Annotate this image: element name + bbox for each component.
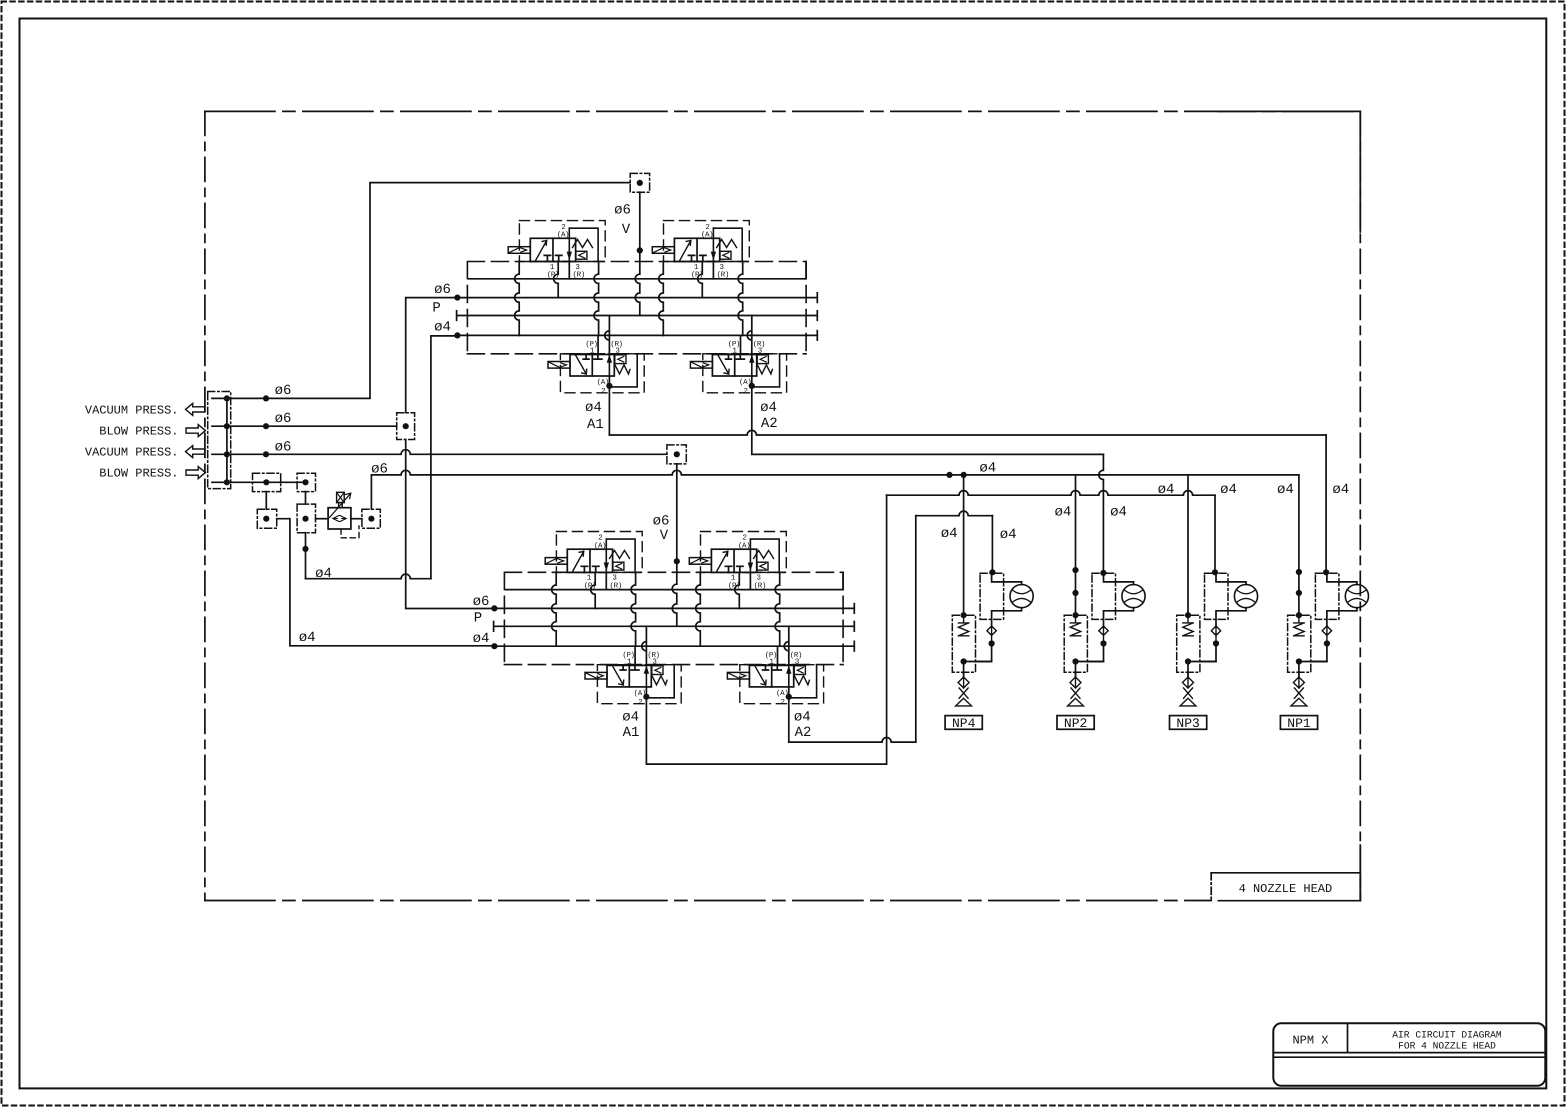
junction in connector E	[368, 516, 374, 522]
junction: upper A2	[749, 383, 755, 389]
wire: SV4 R stem	[747, 316, 752, 355]
nozzle assembly NP3: vacuum filter	[1177, 615, 1200, 672]
solenoid valve SV4: pilot check	[757, 355, 768, 364]
wire: SV1 pilot stems	[515, 262, 520, 336]
nozzle assembly NP4: label box	[945, 716, 982, 730]
enclosure boundary: 4 nozzle head	[205, 111, 1360, 900]
nozzle assembly NP3: label box	[1170, 716, 1207, 730]
NP3 outlet junction	[1185, 658, 1191, 664]
wire: D to upper pilot bus	[306, 574, 431, 579]
solenoid valve SV8: flow arrow	[755, 666, 766, 685]
nozzle assembly NP2: label box	[1057, 716, 1094, 730]
svg-text:ø4: ø4	[473, 631, 490, 647]
nozzle assembly NP4: flow meter loop	[992, 572, 1022, 626]
svg-text:V: V	[660, 528, 669, 544]
svg-text:ø4: ø4	[1110, 505, 1127, 521]
svg-text:FOR 4 NOZZLE HEAD: FOR 4 NOZZLE HEAD	[1398, 1041, 1496, 1052]
solenoid valve SV8: body	[749, 665, 793, 687]
solenoid valve SV5: outer box	[556, 532, 642, 573]
wire: lower A1 to NP3 (L4)	[646, 495, 886, 764]
upper manifold: P feed junction	[454, 295, 460, 301]
upper manifold: body	[467, 262, 806, 354]
svg-text:ø4: ø4	[1277, 482, 1294, 498]
solenoid valve SV1: spring housing	[569, 228, 598, 261]
junction NP3 meter inlet	[1212, 569, 1218, 575]
wire: inlet block tie	[226, 398, 228, 482]
connector: C	[257, 509, 276, 528]
connector: blow branch B	[297, 473, 315, 491]
junction in connector A	[263, 479, 269, 485]
nozzle assembly NP2: flow meter loop	[1104, 572, 1134, 626]
wire: NP4 left feed	[963, 475, 965, 615]
solenoid valve SV3: outer box	[560, 354, 644, 393]
svg-text:2: 2	[781, 698, 785, 707]
nozzle assembly NP4: check valve	[987, 626, 996, 644]
wire: SV8 R stem	[784, 626, 789, 665]
svg-text:(R): (R)	[573, 271, 585, 280]
solenoid valve SV7: spring	[652, 676, 667, 685]
lower manifold: exhaust bus	[505, 572, 843, 589]
solenoid valve SV8: solenoid	[727, 672, 749, 679]
solenoid valve SV4: outer box	[703, 354, 787, 393]
wire: SV3 A stem	[608, 376, 610, 386]
nozzle assembly NP3: orifice	[1183, 672, 1194, 688]
connector: P riser bulkhead	[397, 413, 415, 440]
svg-text:ø4: ø4	[585, 400, 602, 416]
solenoid valve SV8: pilot check	[794, 666, 805, 675]
connector: D	[297, 504, 315, 533]
svg-text:P: P	[432, 300, 440, 316]
solenoid valve SV2: A-R passage	[712, 228, 714, 261]
svg-text:2: 2	[744, 387, 748, 396]
svg-text:ø6: ø6	[275, 383, 292, 399]
upper manifold: pilot feed junction	[454, 332, 460, 338]
nozzle assembly NP1: check valve	[1322, 626, 1331, 644]
wire: C to lower pilot bus	[277, 519, 495, 646]
NP4 check outlet junction	[989, 640, 995, 646]
wire: P riser to lower P bus	[406, 440, 495, 609]
solenoid valve SV1: pilot check	[576, 251, 587, 259]
solenoid valve SV8: pilot feedback	[789, 665, 817, 697]
solenoid valve SV1: solenoid	[508, 247, 530, 254]
nozzle assembly NP1: flow meter box	[1315, 573, 1339, 619]
solenoid valve SV7: solenoid	[585, 672, 607, 679]
wire: SV1 R stem	[568, 262, 570, 279]
svg-text:NP4: NP4	[952, 716, 976, 731]
solenoid valve SV4: spring	[757, 365, 772, 374]
nozzle assembly NP4: nozzle tip	[956, 688, 972, 706]
svg-text:ø4: ø4	[299, 630, 316, 646]
solenoid valve SV7: outer box	[597, 665, 681, 704]
junction in P riser connector	[403, 423, 409, 429]
svg-text:VACUUM PRESS.: VACUUM PRESS.	[85, 445, 179, 459]
wire: SV5 R stem	[605, 572, 607, 589]
svg-text:(R): (R)	[717, 271, 729, 280]
nozzle assembly NP3: filter outlet tie	[1188, 662, 1216, 678]
junction	[263, 451, 269, 457]
svg-text:4 NOZZLE HEAD: 4 NOZZLE HEAD	[1239, 882, 1333, 896]
nozzle assembly NP2: orifice	[1070, 672, 1081, 688]
solenoid valve SV3: solenoid	[548, 362, 570, 369]
junction: upper A1	[606, 383, 612, 389]
wire: lower V drop to vacuum bus	[672, 464, 677, 626]
wire: SV2 P stem	[698, 262, 703, 298]
nozzle assembly NP4: vacuum filter	[952, 615, 975, 672]
svg-text:ø4: ø4	[1158, 482, 1175, 498]
svg-text:ø4: ø4	[1000, 527, 1017, 543]
wire: SV3 R stem	[605, 316, 610, 355]
upper manifold: P bus	[457, 293, 817, 303]
svg-text:ø6: ø6	[473, 594, 490, 610]
solenoid valve SV4: body	[712, 355, 756, 377]
solenoid valve SV6: A-R passage	[749, 539, 751, 572]
svg-text:VACUUM PRESS.: VACUUM PRESS.	[85, 403, 179, 417]
solenoid valve SV5: solenoid	[545, 558, 567, 565]
wire: SV5 pilot stems	[552, 572, 557, 646]
solenoid valve SV5: A-R passage	[605, 539, 607, 572]
wire: SV8 A stem	[788, 687, 790, 697]
svg-text:NP3: NP3	[1176, 716, 1199, 731]
svg-text:2: 2	[601, 387, 605, 396]
svg-text:(R): (R)	[610, 581, 622, 590]
svg-text:2: 2	[638, 698, 642, 707]
junction	[946, 472, 952, 478]
solenoid valve SV4: blocked ports	[726, 355, 745, 360]
solenoid valve SV4: solenoid	[690, 362, 712, 369]
solenoid valve SV1: body	[530, 238, 575, 261]
junction on lower V drop	[674, 558, 680, 564]
solenoid valve SV8: spring	[794, 676, 809, 685]
solenoid valve SV3: spring	[615, 365, 630, 374]
nozzle assembly NP2: check valve	[1099, 626, 1108, 644]
wire: NP3 left feed	[1187, 475, 1189, 615]
NP3 check outlet junction	[1213, 640, 1219, 646]
upper manifold: V bus	[457, 311, 818, 321]
nozzle assembly NP1: filter outlet tie	[1299, 662, 1327, 678]
nozzle assembly NP3: flow meter loop	[1216, 572, 1246, 626]
nozzle assembly NP2: filter outlet tie	[1076, 662, 1104, 678]
upper manifold: pilot bus	[457, 331, 817, 341]
svg-text:ø6: ø6	[275, 439, 292, 455]
solenoid valve SV7: flow arrow	[613, 666, 624, 685]
solenoid valve SV4: pilot feedback	[752, 355, 780, 387]
upper manifold: exhaust bus	[468, 262, 806, 279]
solenoid valve SV8: outer box	[740, 665, 824, 704]
svg-text:A2: A2	[761, 416, 778, 432]
nozzle assembly NP1: flow meter loop	[1327, 572, 1357, 626]
junction in V connector	[637, 180, 643, 186]
solenoid valve SV5: blocked ports	[581, 566, 599, 572]
NP2 feed junction	[1072, 590, 1078, 596]
port arrow: blow 1	[186, 425, 205, 437]
junction in lower V connector	[674, 451, 680, 457]
junction	[224, 395, 230, 401]
wire: SV4 A stem	[751, 376, 753, 386]
wire: vacuum press 1 to upper V connector	[212, 183, 630, 399]
svg-text:A1: A1	[587, 417, 604, 433]
NP2 feed junction	[1072, 567, 1078, 573]
lower manifold: pilot bus	[494, 641, 854, 651]
port arrow: blow 2	[186, 467, 205, 479]
svg-text:(R): (R)	[754, 581, 766, 590]
solenoid valve SV2: blocked ports	[688, 255, 706, 261]
solenoid valve SV7: pilot check	[652, 666, 663, 675]
NP1 filter inlet junction	[1296, 612, 1302, 618]
junction	[224, 423, 230, 429]
NP3 filter inlet junction	[1185, 612, 1191, 618]
svg-text:ø6: ø6	[614, 203, 631, 219]
junction	[224, 479, 230, 485]
NP2 filter inlet junction	[1072, 612, 1078, 618]
solenoid valve SV7: blocked ports	[620, 665, 639, 670]
connector: blow branch A	[253, 473, 281, 491]
svg-text:NP2: NP2	[1064, 716, 1087, 731]
wire: D to regulator	[316, 518, 329, 520]
title block	[1273, 1023, 1545, 1086]
nozzle assembly NP3: nozzle tip	[1180, 688, 1196, 706]
NP1 outlet junction	[1296, 658, 1302, 664]
regulator relief pocket	[341, 526, 359, 538]
solenoid valve SV5: pilot check	[613, 562, 624, 570]
wire: blow press 2 row	[212, 481, 306, 483]
junction in connector C	[263, 516, 269, 522]
svg-text:ø4: ø4	[1332, 482, 1349, 498]
svg-text:ø4: ø4	[1220, 482, 1237, 498]
solenoid valve SV1: A-R passage	[568, 228, 570, 261]
NP2 outlet junction	[1072, 658, 1078, 664]
wire: SV7 R stem	[642, 626, 647, 665]
solenoid valve SV7: body	[607, 665, 651, 687]
svg-text:ø6: ø6	[371, 461, 388, 477]
solenoid valve SV8: A-R passage	[788, 665, 790, 687]
junction on pilot riser	[302, 546, 308, 552]
nozzle assembly NP3: return drop	[1200, 644, 1216, 662]
solenoid valve SV1: outer box	[519, 221, 605, 262]
NP1 feed junction	[1296, 569, 1302, 575]
nozzle assembly NP1: nozzle tip	[1291, 688, 1307, 706]
svg-text:A2: A2	[795, 725, 812, 741]
wire: SV1 P stem	[554, 262, 559, 298]
solenoid valve SV2: solenoid	[652, 247, 674, 254]
nozzle assembly NP2: flow meter box	[1092, 573, 1116, 619]
junction NP2 meter inlet	[1100, 570, 1106, 576]
solenoid valve SV7: A-R passage	[645, 665, 647, 687]
nozzle assembly NP3: flow meter	[1234, 585, 1257, 608]
solenoid valve SV7: pilot feedback	[646, 665, 674, 697]
solenoid valve SV3: blocked ports	[583, 355, 602, 360]
svg-text:ø6: ø6	[434, 282, 451, 298]
wire: connector A down to C	[265, 492, 267, 510]
svg-text:(A): (A)	[738, 541, 750, 550]
solenoid valve SV2: spring housing	[713, 228, 742, 261]
wire: SV3 P stem	[597, 335, 599, 354]
nozzle assembly NP4: filter outlet tie	[964, 662, 992, 678]
svg-text:BLOW PRESS.: BLOW PRESS.	[99, 424, 178, 438]
svg-text:A1: A1	[623, 725, 640, 741]
NP4 outlet junction	[961, 658, 967, 664]
svg-text:NPM X: NPM X	[1292, 1034, 1328, 1048]
wire: SV6 P stem	[735, 572, 740, 608]
solenoid valve SV3: A-R passage	[608, 355, 610, 377]
nozzle assembly NP2: return drop	[1087, 644, 1103, 662]
solenoid valve SV2: outer box	[664, 221, 750, 262]
junction	[263, 395, 269, 401]
solenoid valve SV5: flow arrow	[573, 551, 584, 571]
NP1 check outlet junction	[1324, 640, 1330, 646]
svg-text:ø6: ø6	[275, 411, 292, 427]
NP4 filter inlet junction	[961, 612, 967, 618]
nozzle assembly NP3: flow meter box	[1205, 573, 1229, 619]
svg-text:ø4: ø4	[434, 320, 451, 336]
nozzle assembly NP4: return drop	[976, 644, 992, 662]
svg-text:ø4: ø4	[315, 566, 332, 582]
solenoid valve SV4: A-R passage	[751, 355, 753, 377]
connector: E	[362, 509, 380, 528]
wire: blow press 1 row	[212, 425, 397, 427]
lower manifold: body	[504, 572, 843, 664]
junction	[263, 423, 269, 429]
svg-text:ø4: ø4	[622, 710, 639, 726]
wire: upper A1 to NP1 (L1)	[608, 386, 610, 435]
solenoid valve SV5: body	[567, 549, 612, 572]
solenoid valve SV6: spring housing	[750, 539, 779, 572]
wire: SV8 P stem	[777, 646, 779, 665]
nozzle assembly NP3: check valve	[1211, 626, 1220, 644]
wire: upper V drop to vacuum bus	[635, 192, 640, 315]
svg-text:ø4: ø4	[941, 526, 958, 542]
solenoid valve SV6: solenoid	[689, 558, 711, 565]
NP2 check outlet junction	[1100, 640, 1106, 646]
inlet manifold block	[208, 392, 231, 489]
solenoid valve SV2: pilot check	[720, 251, 731, 259]
nozzle assembly NP1: label box	[1280, 716, 1317, 730]
nozzle assembly NP1: vacuum filter	[1288, 615, 1311, 672]
wire: SV4 P stem	[740, 335, 742, 354]
svg-text:ø4: ø4	[1054, 505, 1071, 521]
svg-text:(A): (A)	[557, 230, 569, 239]
wire: SV5 P stem	[591, 572, 596, 608]
nozzle assembly NP2: flow meter	[1122, 585, 1145, 608]
svg-text:ø6: ø6	[653, 513, 670, 529]
svg-text:AIR CIRCUIT DIAGRAM: AIR CIRCUIT DIAGRAM	[1392, 1030, 1502, 1041]
NP1 feed junction	[1296, 590, 1302, 596]
junction: lower A1	[643, 694, 649, 700]
wire: SV6 R stem	[749, 572, 751, 589]
junction on V drop	[637, 247, 643, 253]
wire: SV2 pilot stems	[659, 262, 664, 336]
wire: NP2 left feed	[1075, 475, 1077, 615]
solenoid valve SV1: blocked ports	[544, 255, 562, 261]
nozzle assembly NP4: orifice	[958, 672, 969, 688]
solenoid valve SV6: flow arrow	[717, 551, 728, 571]
svg-text:ø4: ø4	[979, 461, 996, 477]
svg-text:BLOW PRESS.: BLOW PRESS.	[99, 466, 178, 480]
nozzle assembly NP2: vacuum filter	[1064, 615, 1087, 672]
solenoid valve SV2: body	[674, 238, 719, 261]
nozzle assembly NP1: orifice	[1293, 672, 1304, 688]
solenoid valve SV3: pilot check	[615, 355, 626, 364]
junction NP4 left tap	[961, 472, 967, 478]
nozzle assembly NP2: nozzle tip	[1068, 688, 1084, 706]
solenoid valve SV6: outer box	[701, 532, 787, 573]
solenoid valve SV3: flow arrow	[576, 355, 587, 374]
connector: upper V bulkhead	[630, 173, 649, 192]
port arrow: vacuum 1	[186, 403, 205, 415]
svg-text:(A): (A)	[701, 230, 713, 239]
solenoid valve SV4: flow arrow	[718, 355, 729, 374]
port arrow: vacuum 2	[186, 446, 205, 458]
junction in connector B	[302, 479, 308, 485]
solenoid valve SV3: pilot feedback	[609, 355, 637, 387]
wire: regulated blow main (L3)	[370, 475, 372, 509]
solenoid valve SV6: body	[711, 549, 756, 572]
wire: SV2 R stem	[712, 262, 714, 279]
nozzle assembly NP1: return drop	[1311, 644, 1327, 662]
wire: SV7 P stem	[634, 646, 636, 665]
regulator REG1	[328, 508, 351, 529]
wire: SV6 pilot stems	[696, 572, 701, 646]
wire: vacuum press 2 to lower V connector	[212, 450, 667, 455]
connector: lower V bulkhead	[667, 445, 686, 464]
junction	[224, 451, 230, 457]
junction: lower A2	[786, 694, 792, 700]
solenoid valve SV8: blocked ports	[763, 665, 782, 670]
solenoid valve SV6: blocked ports	[725, 566, 743, 572]
nozzle assembly NP4: flow meter	[1010, 585, 1033, 608]
svg-text:ø4: ø4	[760, 400, 777, 416]
svg-text:ø4: ø4	[794, 710, 811, 726]
wire: lower A2 to NP4 (L5)	[789, 737, 916, 742]
svg-text:NP1: NP1	[1287, 716, 1311, 731]
wire: P riser to upper P bus	[406, 298, 458, 413]
wire: regulator to E	[351, 518, 362, 520]
solenoid valve SV6: pilot check	[757, 562, 768, 570]
wire: NP1 left feed	[1298, 475, 1300, 615]
nozzle assembly NP4: flow meter box	[980, 573, 1004, 619]
svg-text:V: V	[622, 222, 631, 238]
junction NP1 meter inlet	[1323, 569, 1329, 575]
enclosure label box: 4 NOZZLE HEAD	[1211, 873, 1360, 901]
lower manifold: P bus	[494, 604, 854, 614]
solenoid valve SV2: flow arrow	[680, 241, 691, 261]
lower manifold: pilot feed junction	[491, 643, 497, 649]
wire: connector B down through D	[305, 492, 307, 505]
solenoid valve SV1: flow arrow	[536, 241, 547, 261]
svg-text:P: P	[474, 611, 482, 627]
lower manifold: V bus	[494, 622, 855, 632]
nozzle assembly NP1: flow meter	[1345, 585, 1368, 608]
solenoid valve SV5: spring housing	[606, 539, 635, 572]
lower manifold: P feed junction	[491, 605, 497, 611]
solenoid valve SV3: body	[570, 355, 614, 377]
junction in connector D	[302, 516, 308, 522]
regulator adjust screw	[337, 492, 345, 502]
wire: SV7 A stem	[645, 687, 647, 697]
wire: upper A2 to NP2 (L2)	[752, 386, 1104, 455]
svg-text:(A): (A)	[594, 541, 606, 550]
junction NP4 meter inlet	[989, 569, 995, 575]
